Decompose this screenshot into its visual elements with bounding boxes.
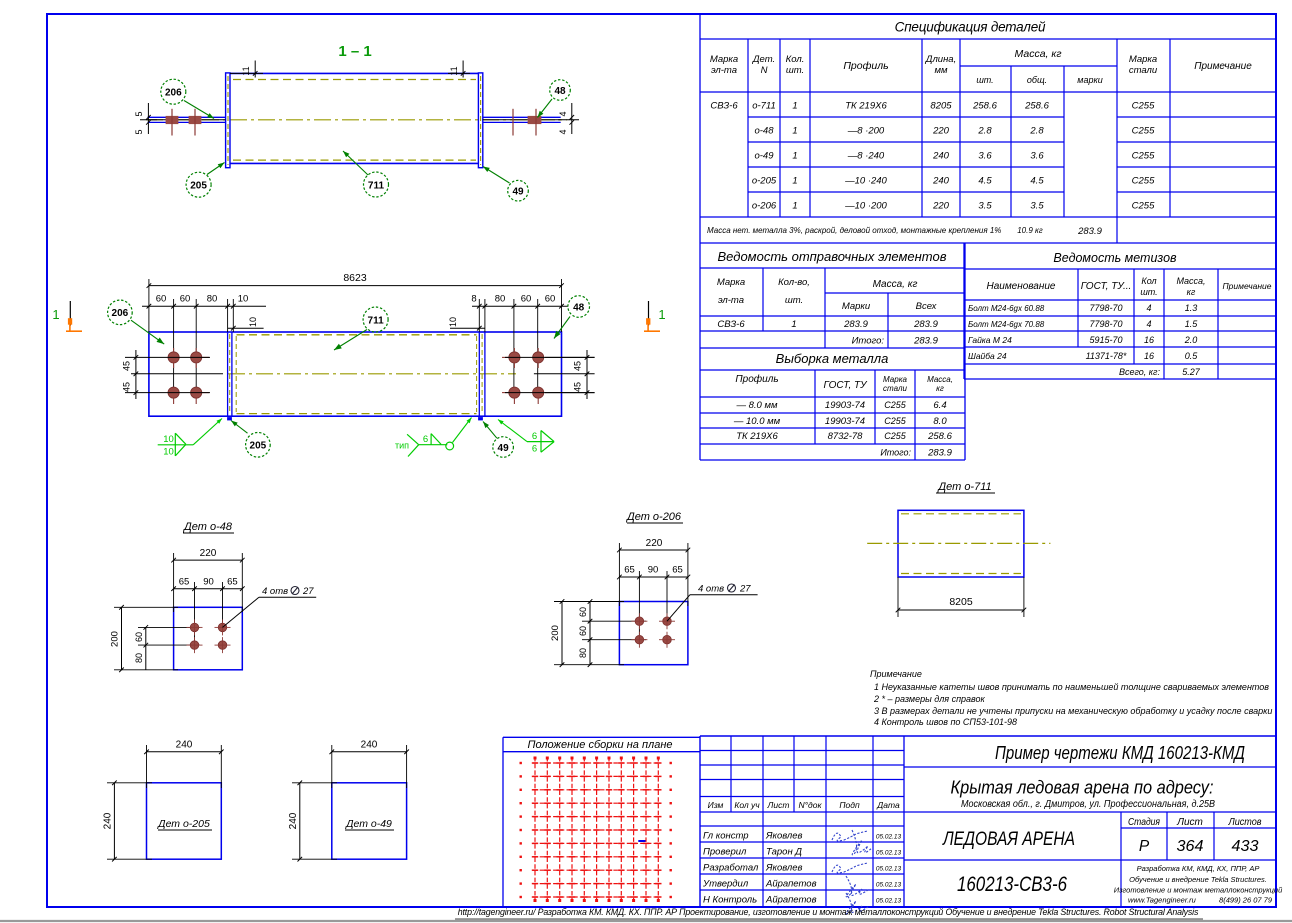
title block sheet name	[941, 829, 1075, 850]
svg-text:мм: мм	[934, 65, 948, 76]
svg-text:60: 60	[578, 626, 588, 636]
svg-text:60: 60	[156, 294, 167, 305]
svg-text:10: 10	[448, 317, 458, 327]
section marker 1 left	[52, 301, 82, 331]
svg-text:10.9 кг: 10.9 кг	[1017, 226, 1043, 235]
svg-text:Дет о-48: Дет о-48	[182, 521, 233, 533]
svg-text:10: 10	[238, 294, 249, 305]
detail o-48 leader 4 holes d27	[223, 586, 317, 627]
svg-text:711: 711	[368, 180, 385, 191]
assembly position marker	[638, 840, 645, 842]
svg-text:N°док: N°док	[799, 800, 823, 810]
detail o-206 dim 200	[550, 599, 624, 667]
svg-text:Всех: Всех	[916, 301, 938, 312]
detail o-206 title	[625, 511, 683, 523]
svg-text:240: 240	[361, 740, 378, 751]
pipe body section o-711	[230, 73, 478, 163]
spec table mass note row	[707, 226, 1103, 237]
svg-text:Профиль: Профиль	[843, 60, 888, 72]
svg-text:60: 60	[521, 294, 532, 305]
svg-text:200: 200	[110, 631, 121, 647]
svg-text:8: 8	[471, 294, 476, 305]
svg-text:С255: С255	[1132, 151, 1155, 162]
svg-text:Пример чертежи КМД 160213-КМД: Пример чертежи КМД 160213-КМД	[995, 743, 1245, 763]
svg-text:о-48: о-48	[754, 126, 774, 137]
detail o-206 dim 65 90 65	[617, 565, 690, 643]
plan sub dims right 8 80 60 60	[471, 294, 568, 393]
svg-text:Масса, кг: Масса, кг	[873, 279, 918, 290]
svg-text:2 * – размеры для справок: 2 * – размеры для справок	[873, 694, 986, 704]
plan left bolts	[168, 348, 209, 404]
left bolts	[166, 109, 201, 136]
svg-text:283.9: 283.9	[1077, 226, 1102, 237]
svg-text:05.02.13: 05.02.13	[876, 882, 902, 889]
svg-text:Дет о-206: Дет о-206	[625, 511, 682, 523]
svg-text:кг: кг	[936, 384, 944, 393]
svg-text:90: 90	[648, 565, 659, 576]
svg-text:8623: 8623	[343, 272, 367, 284]
svg-text:Н Контроль: Н Контроль	[703, 895, 757, 906]
title block signature rows	[702, 831, 902, 906]
svg-text:ГОСТ, ТУ: ГОСТ, ТУ	[823, 380, 868, 391]
detail o-711 dim 8205	[896, 577, 1027, 617]
svg-text:тип: тип	[395, 440, 409, 450]
dim 11 left	[230, 61, 263, 78]
svg-text:Кол уч: Кол уч	[734, 800, 760, 810]
svg-text:Шайба 24: Шайба 24	[968, 351, 1007, 361]
svg-text:10: 10	[163, 434, 174, 445]
svg-text:1: 1	[658, 307, 665, 322]
svg-text:о-49: о-49	[754, 151, 774, 162]
svg-text:о-205: о-205	[752, 176, 777, 187]
svg-text:60: 60	[134, 632, 144, 642]
svg-text:80: 80	[207, 294, 218, 305]
left anchor rods o-206	[148, 117, 226, 122]
svg-text:200: 200	[550, 625, 561, 641]
detail o-49 dim 240 left	[288, 780, 337, 861]
svg-text:16: 16	[1144, 351, 1154, 361]
plan left end plate	[228, 332, 237, 416]
svg-text:433: 433	[1232, 838, 1259, 855]
svg-text:3.6: 3.6	[978, 151, 992, 162]
svg-text:Яковлев: Яковлев	[765, 831, 803, 842]
svg-text:ЛЕДОВАЯ АРЕНА: ЛЕДОВАЯ АРЕНА	[941, 829, 1075, 850]
detail o-711 title	[936, 481, 995, 493]
mark bubble 205 plan	[228, 418, 271, 458]
svg-text:Айрапетов: Айрапетов	[765, 879, 817, 890]
svg-text:27: 27	[739, 584, 751, 595]
svg-text:Кол-во,: Кол-во,	[778, 277, 810, 288]
svg-text:С255: С255	[884, 416, 907, 426]
shipping elements table grid	[700, 243, 965, 348]
svg-text:220: 220	[200, 548, 217, 559]
svg-text:Марки: Марки	[842, 301, 871, 312]
svg-text:49: 49	[498, 443, 510, 454]
svg-text:Тарон Д: Тарон Д	[766, 847, 802, 858]
svg-text:711: 711	[368, 315, 385, 326]
detail o-206 plate	[619, 602, 688, 665]
svg-text:Лист: Лист	[1176, 817, 1203, 828]
plan centerline	[228, 373, 516, 375]
svg-text:10: 10	[248, 317, 258, 327]
svg-text:Р: Р	[1139, 838, 1150, 855]
footer url line	[455, 907, 1203, 919]
detail o-206 holes	[631, 613, 675, 648]
section view title 1-1	[338, 43, 371, 60]
svg-text:6: 6	[423, 434, 428, 445]
svg-text:283.9: 283.9	[927, 448, 952, 459]
svg-text:стали: стали	[883, 384, 907, 393]
dim 5/5 left	[134, 103, 157, 135]
mark bubble 205 section	[186, 163, 224, 198]
hardware table text	[968, 251, 1272, 377]
title block document number	[957, 873, 1067, 896]
svg-text:Итого:: Итого:	[880, 448, 911, 458]
spec table data rows	[710, 101, 1155, 212]
svg-text:1: 1	[792, 151, 797, 162]
svg-text:7798-70: 7798-70	[1089, 319, 1122, 329]
svg-text:283.9: 283.9	[913, 336, 938, 347]
metal selection table grid	[700, 348, 965, 460]
svg-text:220: 220	[646, 538, 663, 549]
weld symbol 10/10	[158, 419, 222, 458]
svg-text:258.6: 258.6	[927, 431, 952, 442]
mark bubble 206 section	[161, 79, 214, 118]
svg-text:о-206: о-206	[752, 201, 777, 212]
svg-text:258.6: 258.6	[972, 101, 997, 112]
svg-text:206: 206	[165, 88, 182, 99]
svg-text:90: 90	[203, 577, 214, 588]
svg-text:240: 240	[932, 176, 950, 187]
right bolts	[513, 109, 541, 136]
svg-text:Изм: Изм	[708, 800, 724, 810]
svg-text:60: 60	[578, 607, 588, 617]
svg-text:160213-СВ3-6: 160213-СВ3-6	[957, 873, 1067, 896]
dim 8623 overall	[147, 272, 564, 332]
dim 11 right	[448, 61, 470, 78]
detail o-711 pipe	[867, 510, 1050, 577]
title block object name	[951, 778, 1216, 811]
svg-text:С255: С255	[1132, 201, 1155, 212]
svg-text:Примечание: Примечание	[870, 669, 922, 679]
plan bolt grid lines	[125, 357, 595, 392]
svg-text:3 В размерах детали не учтены: 3 В размерах детали не учтены припуски н…	[874, 706, 1272, 716]
title block company info	[1114, 864, 1283, 905]
svg-text:2.8: 2.8	[1029, 126, 1044, 137]
svg-text:2.8: 2.8	[977, 126, 992, 137]
svg-text:Айрапетов: Айрапетов	[765, 895, 817, 906]
dim 4/4 right	[558, 103, 579, 135]
svg-text:ТК 219Х6: ТК 219Х6	[845, 101, 887, 112]
svg-text:8205: 8205	[949, 596, 973, 608]
svg-text:Дет о-49: Дет о-49	[345, 818, 392, 830]
spec table grid	[700, 14, 1276, 243]
detail o-49 plate	[332, 783, 407, 859]
svg-text:Изготовление и монтаж металлок: Изготовление и монтаж металлоконструкций	[1114, 886, 1283, 895]
mark bubble 48 section	[538, 80, 571, 118]
svg-text:5915-70: 5915-70	[1089, 335, 1122, 345]
detail o-206 leader 4 holes d27	[667, 584, 758, 622]
svg-text:65: 65	[179, 577, 190, 588]
title block project name	[995, 743, 1245, 763]
svg-text:С255: С255	[1132, 176, 1155, 187]
svg-text:4: 4	[558, 111, 568, 116]
svg-text:Утвердил: Утвердил	[702, 879, 749, 890]
svg-text:1: 1	[792, 201, 797, 212]
dim 10 weld right	[448, 317, 485, 331]
svg-text:Масса, кг: Масса, кг	[1014, 48, 1061, 60]
svg-text:Ведомость метизов: Ведомость метизов	[1053, 251, 1177, 265]
metal selection table text	[733, 351, 953, 459]
svg-text:Итого:: Итого:	[852, 336, 885, 347]
svg-text:шт.: шт.	[976, 75, 993, 85]
svg-text:Проверил: Проверил	[703, 847, 747, 858]
svg-text:5: 5	[134, 111, 144, 116]
svg-text:4.5: 4.5	[978, 176, 992, 187]
end plate o-205 left	[226, 73, 230, 168]
svg-text:6: 6	[532, 431, 537, 442]
svg-text:Дет о-205: Дет о-205	[157, 818, 210, 830]
weld symbol 6/6	[498, 420, 554, 455]
svg-text:49: 49	[512, 187, 524, 198]
detail o-48 dims 60 80	[134, 625, 200, 670]
plan pipe hidden lines	[237, 335, 477, 414]
svg-text:Наименование: Наименование	[986, 281, 1055, 292]
signatures	[832, 830, 872, 914]
svg-text:240: 240	[102, 812, 113, 829]
mark bubble 711 section	[343, 151, 389, 197]
svg-text:205: 205	[250, 441, 267, 452]
svg-text:4.5: 4.5	[1030, 176, 1044, 187]
detail o-206 dim 220	[617, 538, 690, 606]
svg-text:2.0: 2.0	[1184, 335, 1198, 345]
svg-text:48: 48	[573, 302, 585, 313]
svg-text:Спецификация деталей: Спецификация деталей	[895, 20, 1046, 35]
svg-text:8205: 8205	[930, 101, 952, 112]
detail o-48 dim 65 90 65	[171, 577, 244, 649]
svg-text:11: 11	[241, 66, 251, 75]
assembly position red grid	[520, 757, 672, 903]
svg-text:эл-та: эл-та	[711, 65, 737, 76]
title block grid	[700, 736, 1276, 907]
plan right end plate	[477, 332, 485, 416]
svg-text:Марка: Марка	[717, 277, 745, 288]
svg-text:СВЗ-6: СВЗ-6	[717, 319, 745, 330]
svg-text:1.3: 1.3	[1185, 303, 1198, 313]
weld symbol tip-6	[395, 418, 472, 457]
plan view assembly outline	[149, 332, 562, 416]
dim 45/45 right	[573, 350, 590, 399]
svg-text:19903-74: 19903-74	[825, 400, 865, 411]
detail o-206 dims 60 60 80	[578, 599, 646, 667]
svg-text:Подп: Подп	[839, 800, 860, 810]
svg-text:Стадия: Стадия	[1128, 817, 1161, 828]
svg-text:220: 220	[932, 126, 950, 137]
title block stage cells	[1128, 817, 1262, 855]
svg-text:48: 48	[554, 86, 566, 97]
svg-text:Крытая ледовая арена по адресу: Крытая ледовая арена по адресу:	[951, 778, 1214, 798]
svg-text:— 8.0 мм: — 8.0 мм	[735, 400, 777, 411]
svg-text:эл-та: эл-та	[718, 295, 744, 306]
svg-text:Листов: Листов	[1228, 817, 1262, 828]
svg-text:Масса,: Масса,	[1176, 276, 1205, 286]
svg-text:Болт М24-6gх 70.88: Болт М24-6gх 70.88	[968, 320, 1045, 329]
svg-text:45: 45	[122, 361, 132, 371]
svg-text:8(499) 26 07 79: 8(499) 26 07 79	[1219, 896, 1273, 905]
mark bubble 206 plan	[108, 300, 165, 344]
plan sub dims left 60 60 80 10	[142, 294, 266, 393]
svg-text:5: 5	[134, 129, 144, 134]
svg-text:27: 27	[302, 586, 314, 597]
svg-text:10: 10	[163, 447, 174, 458]
svg-text:240: 240	[288, 812, 299, 829]
svg-text:http://tagengineer.ru/ Разраб: http://tagengineer.ru/ Разработка КМ. КМ…	[458, 907, 1199, 917]
svg-text:80: 80	[134, 653, 144, 663]
svg-text:Выборка металла: Выборка металла	[776, 351, 889, 366]
svg-text:Всего, кг:: Всего, кг:	[1119, 367, 1161, 377]
svg-text:СВЗ-6: СВЗ-6	[710, 101, 738, 112]
svg-text:258.6: 258.6	[1024, 101, 1049, 112]
detail o-48 dim 220	[171, 548, 244, 612]
svg-text:240: 240	[176, 740, 193, 751]
svg-text:1.5: 1.5	[1185, 319, 1199, 329]
svg-text:45: 45	[573, 382, 583, 392]
title block header row	[708, 800, 900, 810]
svg-text:4: 4	[558, 129, 568, 134]
svg-text:Ведомость отправочных элементо: Ведомость отправочных элементов	[718, 249, 947, 264]
spec table headers	[710, 48, 1252, 85]
detail o-48 title	[182, 521, 234, 533]
svg-text:60: 60	[180, 294, 191, 305]
svg-text:80: 80	[495, 294, 506, 305]
svg-text:Дет.: Дет.	[752, 54, 775, 65]
centerline	[146, 119, 567, 121]
svg-text:Лист: Лист	[767, 800, 790, 810]
svg-text:8732-78: 8732-78	[828, 431, 864, 442]
svg-text:1: 1	[791, 319, 796, 330]
spec table title	[895, 20, 1046, 35]
right anchor rods o-48	[483, 117, 561, 122]
svg-text:С255: С255	[884, 400, 907, 410]
svg-text:16: 16	[1144, 335, 1154, 345]
svg-text:Гл констр: Гл констр	[703, 831, 749, 842]
svg-text:Гайка М 24: Гайка М 24	[968, 335, 1012, 345]
mark bubble 48 plan	[554, 296, 590, 339]
svg-text:6.4: 6.4	[933, 400, 946, 411]
svg-text:80: 80	[578, 648, 588, 658]
svg-text:206: 206	[112, 308, 129, 319]
svg-text:1 Неуказанные катеты швов при: 1 Неуказанные катеты швов принимать по н…	[874, 682, 1269, 692]
svg-text:1 – 1: 1 – 1	[338, 43, 371, 60]
svg-text:шт.: шт.	[786, 65, 804, 76]
svg-text:Марка: Марка	[710, 54, 738, 65]
svg-text:4 Контроль швов по СП53-101-9: 4 Контроль швов по СП53-101-98	[874, 717, 1017, 727]
detail o-205 dim 240 top	[144, 740, 223, 789]
svg-text:о-711: о-711	[752, 101, 776, 112]
svg-text:283.9: 283.9	[843, 319, 868, 330]
svg-text:Кол: Кол	[1141, 276, 1156, 286]
svg-text:05.02.13: 05.02.13	[876, 866, 902, 873]
svg-text:05.02.13: 05.02.13	[876, 850, 902, 857]
svg-text:220: 220	[932, 201, 950, 212]
svg-text:—8 ·200: —8 ·200	[847, 126, 885, 137]
svg-text:45: 45	[573, 361, 583, 371]
svg-text:05.02.13: 05.02.13	[876, 898, 902, 905]
svg-text:ТК 219Х6: ТК 219Х6	[736, 431, 778, 442]
mark bubble 49 plan	[479, 418, 514, 458]
svg-text:Масса нет. металла 3%, раскрой: Масса нет. металла 3%, раскрой, деловой …	[707, 226, 1001, 235]
svg-text:— 10.0 мм: — 10.0 мм	[733, 416, 781, 427]
notes	[870, 669, 1272, 727]
svg-text:5.27: 5.27	[1182, 367, 1201, 377]
svg-text:шт.: шт.	[785, 295, 803, 306]
svg-text:19903-74: 19903-74	[825, 416, 865, 427]
svg-text:Московская обл., г. Дмитров, у: Московская обл., г. Дмитров, ул. Професс…	[961, 798, 1215, 810]
svg-text:www.Tagengineer.ru: www.Tagengineer.ru	[1128, 896, 1197, 905]
svg-text:N: N	[761, 65, 768, 76]
svg-text:11: 11	[449, 66, 459, 75]
svg-text:Масса,: Масса,	[927, 375, 953, 384]
svg-text:4: 4	[1146, 319, 1151, 329]
detail o-48 dim 200	[110, 605, 179, 672]
svg-text:общ.: общ.	[1027, 75, 1047, 85]
detail o-48 holes	[187, 619, 231, 653]
svg-text:Дата: Дата	[876, 800, 900, 810]
svg-text:кг: кг	[1187, 287, 1196, 297]
svg-text:С255: С255	[1132, 126, 1155, 137]
svg-text:11371-78*: 11371-78*	[1086, 351, 1127, 361]
svg-text:шт.: шт.	[1140, 287, 1157, 297]
svg-text:стали: стали	[1129, 65, 1158, 76]
detail o-49 dim 240 top	[329, 740, 408, 789]
svg-text:Марка: Марка	[883, 375, 907, 384]
detail o-48 plate	[174, 607, 243, 670]
svg-text:7798-70: 7798-70	[1089, 303, 1122, 313]
svg-text:65: 65	[227, 577, 238, 588]
svg-text:Обучение и внедрение Tekla St: Обучение и внедрение Tekla Structures.	[1129, 875, 1267, 884]
detail o-205 plate	[147, 783, 222, 859]
svg-text:Болт М24-6gх 60.88: Болт М24-6gх 60.88	[968, 304, 1045, 313]
svg-text:6: 6	[532, 444, 537, 455]
svg-text:60: 60	[545, 294, 556, 305]
hardware table grid	[964, 243, 1276, 379]
svg-text:1: 1	[792, 101, 797, 112]
svg-text:Марка: Марка	[1129, 54, 1157, 65]
svg-text:Разработал: Разработал	[703, 863, 759, 874]
svg-text:4: 4	[1146, 303, 1151, 313]
window edge bar	[0, 920, 1292, 922]
svg-text:364: 364	[1177, 838, 1204, 855]
svg-text:марки: марки	[1077, 75, 1102, 85]
svg-text:—8 ·240: —8 ·240	[847, 151, 885, 162]
svg-text:1: 1	[792, 126, 797, 137]
svg-text:05.02.13: 05.02.13	[876, 834, 902, 841]
svg-text:3.5: 3.5	[1030, 201, 1044, 212]
svg-text:—10 ·240: —10 ·240	[844, 176, 887, 187]
svg-text:4 отв: 4 отв	[262, 586, 288, 597]
svg-text:205: 205	[190, 181, 207, 192]
svg-text:65: 65	[672, 565, 683, 576]
svg-text:С255: С255	[1132, 101, 1155, 112]
detail o-205 dim 240 left	[102, 780, 152, 861]
svg-text:0.5: 0.5	[1185, 351, 1199, 361]
svg-text:1: 1	[792, 176, 797, 187]
dim 10 weld left	[228, 317, 264, 331]
svg-text:283.9: 283.9	[913, 319, 938, 330]
svg-text:Длина,: Длина,	[925, 54, 956, 65]
mark bubble 49 section	[483, 167, 528, 202]
svg-text:С255: С255	[884, 431, 907, 441]
